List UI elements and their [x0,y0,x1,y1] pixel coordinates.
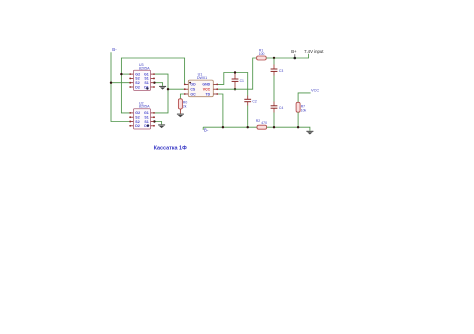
wire: U1.GND up and across to C2 [218,73,248,96]
wire: C2 down to bottom rail [247,102,249,106]
svg-text:8205A: 8205A [139,66,150,70]
wire: G1 net (U3.G1 to U2.G1) [154,74,168,113]
svg-text:R2: R2 [256,119,260,123]
resistor R7 [296,102,300,112]
svg-text:D2: D2 [135,85,140,89]
capacitor C3 [271,69,278,71]
U3 pins right [151,74,155,87]
wire: R0 to ground [179,109,181,114]
wire: U1.OC to R0 [180,94,184,99]
U3 pin end dots [129,73,155,88]
capacitor C2 [244,99,251,101]
node: junction on G1 rail [167,88,169,90]
wire: R1 to B+ and 7.4V input [266,54,308,58]
svg-text:2k: 2k [183,105,187,109]
svg-text:VCC: VCC [311,87,319,92]
svg-text:C3: C3 [279,69,283,73]
resistor R1 [257,56,267,60]
svg-text:B+: B+ [291,49,297,54]
svg-text:C2: C2 [252,99,256,103]
resistor R2 [257,125,267,129]
svg-text:GND: GND [202,83,210,87]
node: junction at B+ [294,57,297,60]
U1 pins right [213,84,217,94]
node: junction C1 top [234,71,236,73]
U2 pin end dots [129,112,155,127]
node: junction C2/bottom rail [247,126,249,128]
svg-text:B-: B- [204,127,209,132]
U2 corner mark [147,124,149,126]
resistor R0 [178,99,182,109]
svg-text:DW01: DW01 [197,76,207,80]
svg-text:B-: B- [112,47,117,52]
svg-text:OD: OD [190,83,196,87]
capacitor C4 [271,106,278,108]
node: junction right of R1 [273,57,275,59]
wire: branch G2 rail to U3.G2 [121,73,129,75]
wire: bottom rail left of R2 [203,126,257,128]
ground (near U2) [158,124,165,128]
ground (bottom right) [306,131,313,135]
wire: C3 to C4 [273,72,275,76]
U2 pin labels [135,111,149,128]
net label B- (bottom) [202,127,204,130]
U1 pin 1 mark [189,82,191,84]
node: junction C4/bottom rail [273,126,275,128]
node: junction R7/bottom rail [297,126,299,128]
svg-text:C1: C1 [240,79,244,83]
node: junction on G2 rail [120,73,122,75]
ground (near U3) [159,86,166,90]
wire: bottom rail right of R2 [267,127,310,131]
svg-text:8205A: 8205A [139,105,150,109]
node: junction C1 bottom [234,88,236,90]
svg-text:D2: D2 [135,124,140,128]
IC U1 DW01 [184,72,218,96]
node: junction at U2.S1 pin [153,120,155,122]
IC U2 8205A [129,101,155,129]
svg-text:VCC: VCC [203,88,211,92]
U2 pins left [130,113,134,126]
svg-text:CS: CS [190,88,196,92]
U1 pin end dots [184,84,218,95]
capacitor C1 [234,73,236,79]
wire: VCC to R7 [298,93,311,102]
wire: branch from B- rail to U3.S2 [111,82,130,84]
U3 pin labels [135,72,149,89]
wire: U1.TD riser down to bottom rail [218,94,223,127]
IC U3 8205A [129,63,155,91]
U1 pin labels [190,83,210,97]
wire: R7 down to bottom rail [297,112,299,127]
wire: branch G1 rail to U1.CS [168,88,184,90]
node: junction on B- rail [110,82,112,84]
U1 pins left [184,84,188,94]
svg-text:100: 100 [259,52,265,56]
U3 corner mark [146,87,148,89]
U3 pins left [130,74,134,87]
wire: junction down to C3 [273,58,275,65]
U2 pins right [151,113,155,126]
svg-text:470: 470 [261,121,267,125]
svg-text:Кассатка 1Ф: Кассатка 1Ф [154,146,187,152]
svg-text:C4: C4 [279,106,283,110]
svg-text:10k: 10k [301,108,307,112]
wire: U3.S1 to ground stub [154,83,162,86]
node: junction at U3.S1 pin [153,82,155,84]
ground (below R0) [177,114,184,118]
wire: B- vertical left rail down to U2.S2 [111,52,130,121]
svg-text:OC: OC [190,92,196,96]
wire: U1.VCC across and up to R1 [218,58,257,89]
svg-text:7.4V input: 7.4V input [304,49,324,54]
wire: C4 down to bottom rail [273,108,275,112]
wire: G2 net (U1.OD to U3.G2 and U2.G2) [121,58,184,113]
wire: U2.S1 to ground stub [154,122,161,125]
node: junction TD/bottom rail [222,126,224,128]
svg-text:TD: TD [206,92,211,96]
